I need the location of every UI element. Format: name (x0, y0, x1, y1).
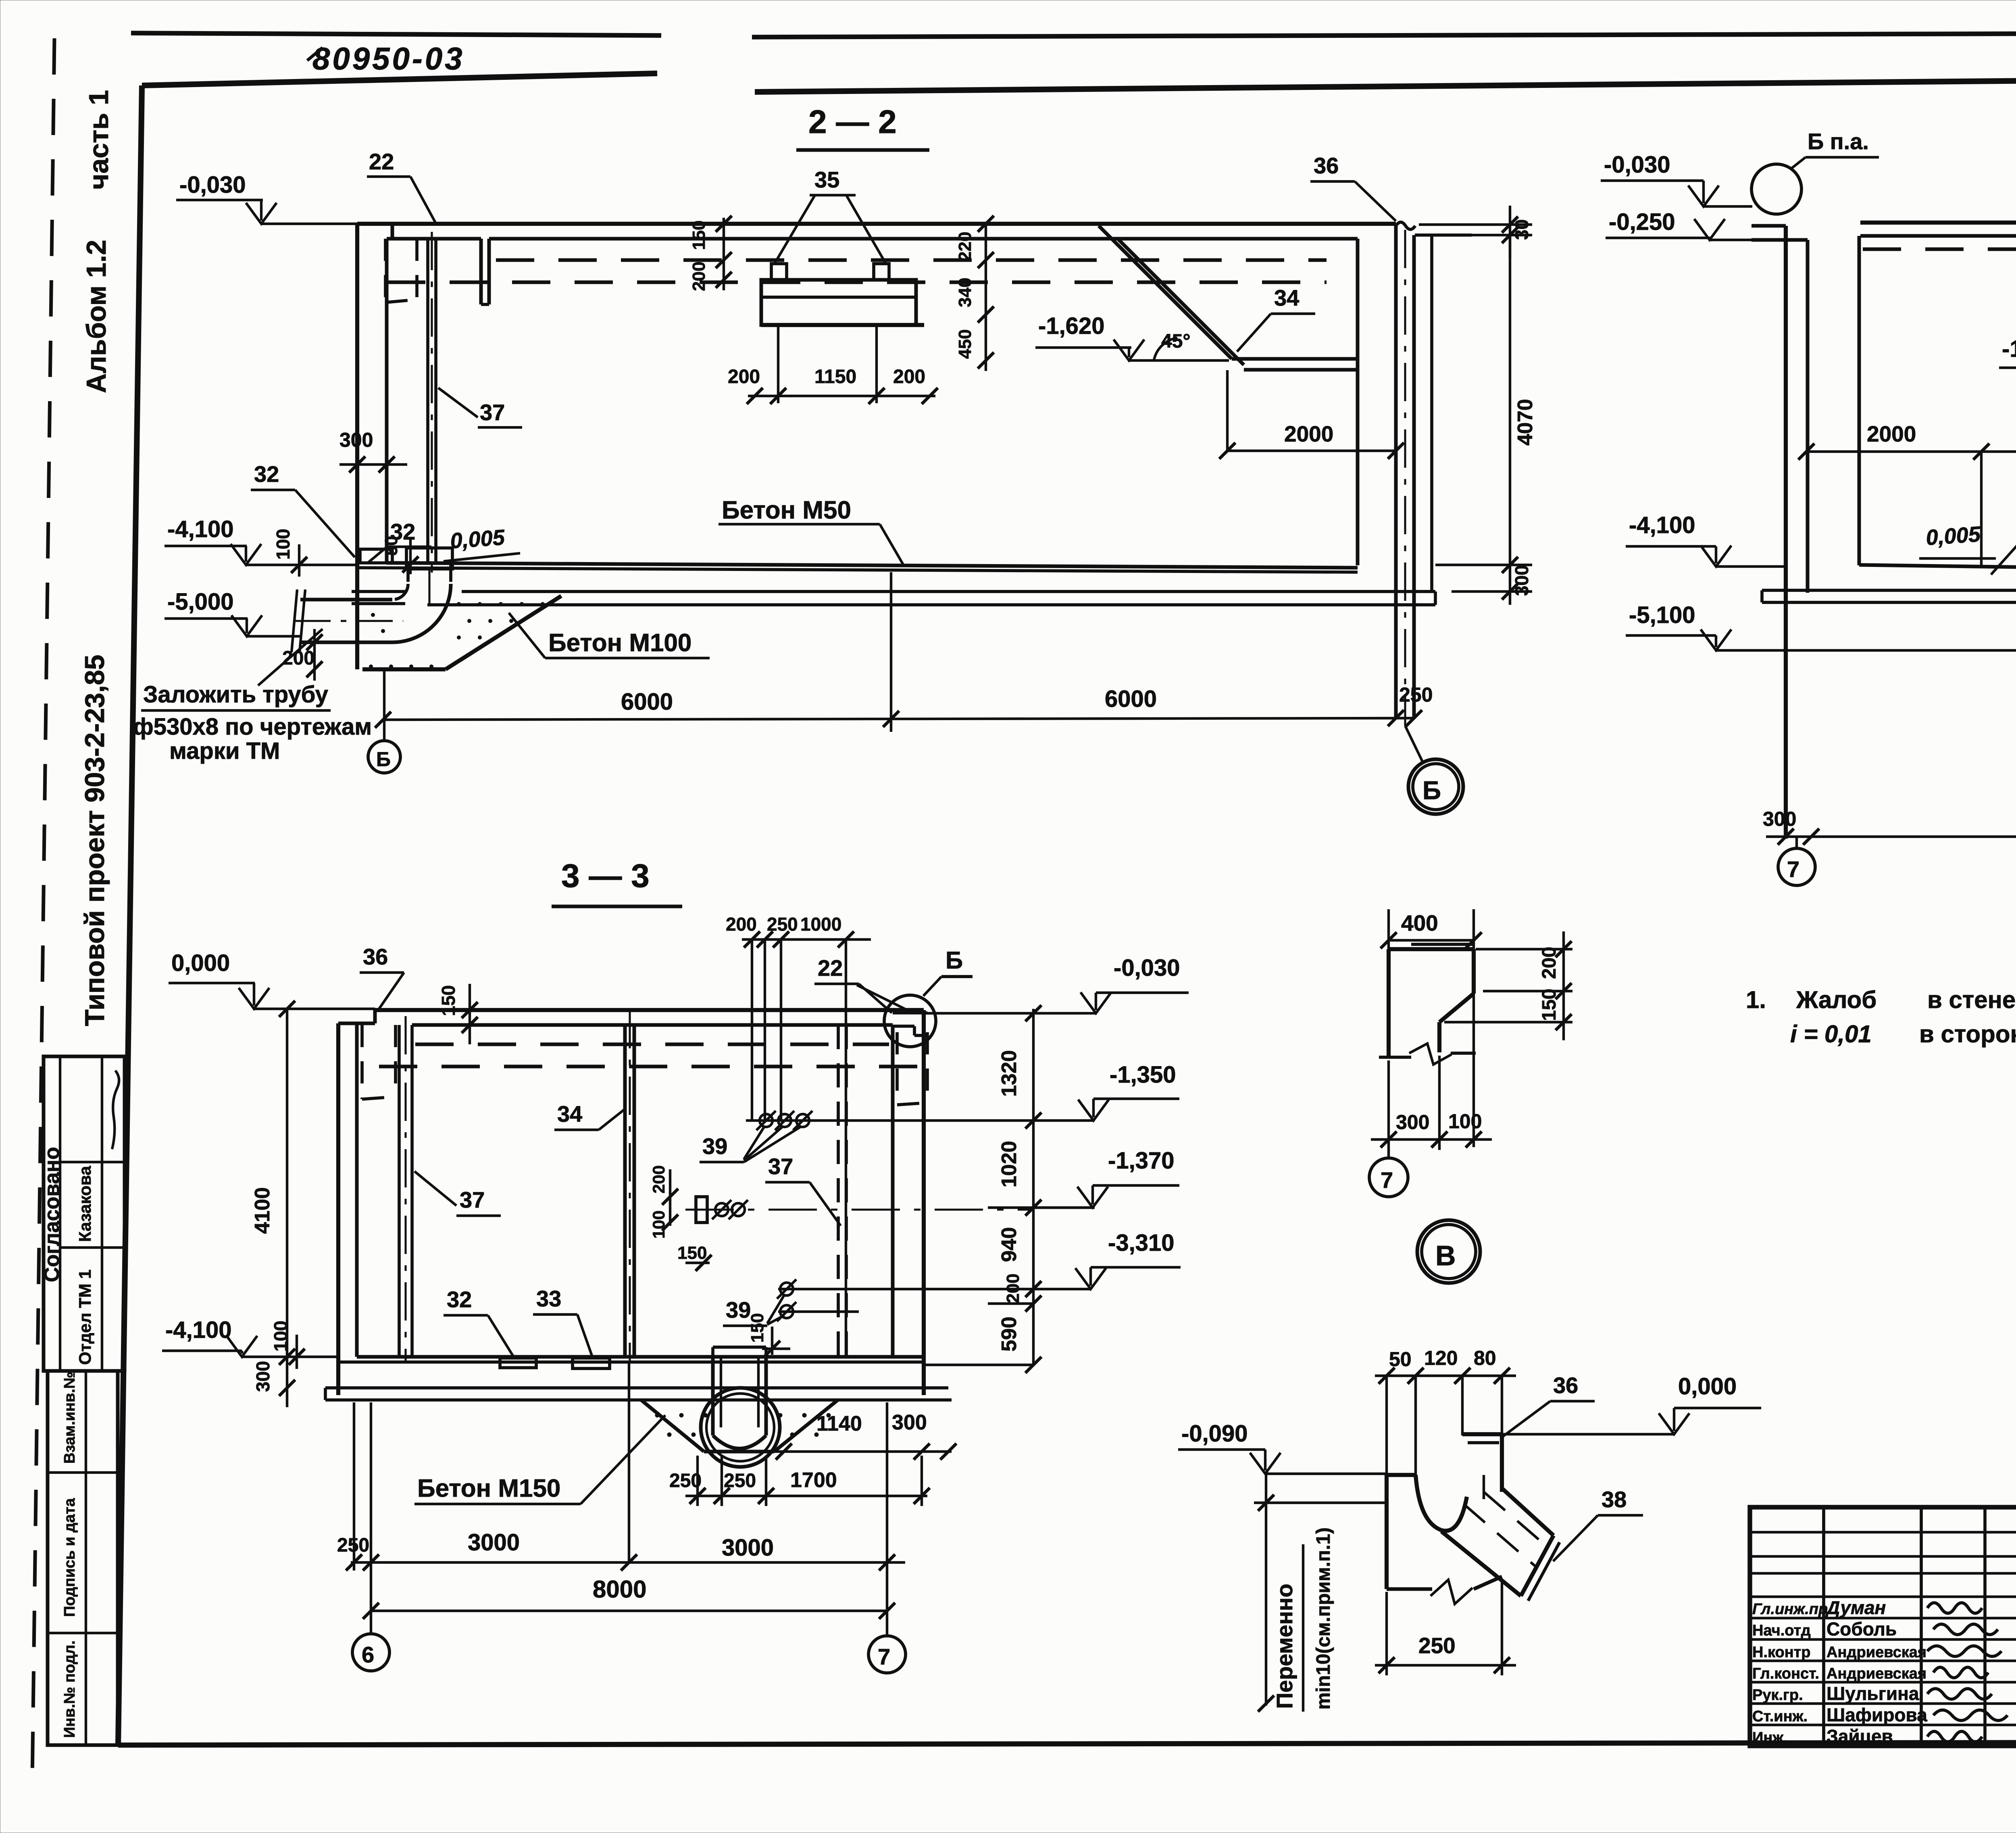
2-2 axis extension to circle right (1405, 726, 1423, 763)
svg-text:37: 37 (460, 1187, 485, 1212)
svg-text:Отдел ТМ 1: Отдел ТМ 1 (75, 1269, 94, 1365)
svg-text:min10(см.прим.п.1): min10(см.прим.п.1) (1313, 1527, 1334, 1710)
svg-text:36: 36 (1553, 1373, 1578, 1398)
2-2 floor slab top line (387, 563, 1358, 568)
svg-text:4070: 4070 (1514, 399, 1537, 446)
svg-text:Бетон М100: Бетон М100 (548, 629, 691, 657)
3-3 anchor row 1 line (746, 1119, 1033, 1122)
3-3 anchor row 2 lines (778, 1288, 1033, 1290)
3-3 right wall outer face (922, 1010, 926, 1395)
svg-text:150: 150 (748, 1313, 767, 1343)
2-2 block left dim chain (723, 218, 725, 290)
left outer dashed border line (32, 38, 54, 1780)
svg-text:80950-03: 80950-03 (312, 41, 465, 76)
2-2 baffle horizontal line2 (1244, 368, 1358, 372)
svg-text:Согласовано: Согласовано (40, 1147, 64, 1282)
approval stamp divider vertical 1 (59, 1056, 61, 1371)
4-4 left wall inner face (1806, 240, 1810, 593)
svg-text:6000: 6000 (621, 689, 673, 715)
svg-text:150: 150 (689, 221, 709, 250)
2-2 base slab band (462, 590, 1397, 593)
svg-text:200: 200 (1003, 1274, 1023, 1303)
2-2 bottom dim line (383, 718, 1414, 720)
3-3 middle wall 34 lines (623, 1025, 627, 1357)
svg-text:150: 150 (438, 985, 459, 1016)
lower stamp divider vertical (85, 1371, 87, 1745)
svg-text:В: В (1435, 1240, 1456, 1271)
nodeB dim 50 120 80 (1375, 1375, 1516, 1377)
3-3 base slab band (338, 1386, 948, 1389)
svg-text:1700: 1700 (790, 1468, 837, 1492)
2-2 bottom dim extension left (383, 671, 385, 741)
svg-text:Бетон М150: Бетон М150 (417, 1475, 560, 1502)
svg-text:-0,250: -0,250 (1609, 209, 1675, 235)
3-3 trench stipple (655, 1413, 659, 1417)
svg-text:Ст.инж.: Ст.инж. (1752, 1708, 1808, 1725)
svg-text:Б: Б (1422, 776, 1441, 805)
svg-text:-4,100: -4,100 (167, 516, 233, 542)
svg-text:940: 940 (998, 1227, 1021, 1262)
svg-text:1140: 1140 (816, 1412, 862, 1435)
nodeB dim extensions (1385, 1376, 1388, 1475)
3-3 dim 3000 3000 (351, 1561, 905, 1564)
svg-text:7: 7 (1381, 1167, 1393, 1193)
3-3 floor line (357, 1355, 924, 1359)
nodeB chute edge upper (1502, 1489, 1554, 1535)
detail7 break symbol (1409, 1044, 1452, 1064)
2-2 embedded pipe vertical dashed (406, 564, 410, 584)
3-3 slab soffit (412, 1023, 893, 1027)
2-2 right formwork outer line (1430, 235, 1433, 592)
2-2 lean concrete block outline (446, 596, 561, 669)
svg-text:0,005: 0,005 (450, 525, 506, 553)
svg-text:50: 50 (1389, 1348, 1412, 1371)
svg-text:Взам.инв.№: Взам.инв.№ (61, 1372, 78, 1464)
4-4 dim 2000 2500 (1806, 450, 2016, 453)
3-3 channel 22 inside circle (893, 1011, 927, 1014)
svg-text:Подпись и дата: Подпись и дата (61, 1498, 78, 1617)
svg-text:6: 6 (362, 1642, 374, 1667)
svg-text:-4,100: -4,100 (165, 1317, 231, 1343)
svg-text:Рук.гр.: Рук.гр. (1752, 1687, 1803, 1704)
svg-text:450: 450 (955, 329, 975, 359)
svg-text:i = 0,01: i = 0,01 (1790, 1021, 1872, 1048)
svg-text:2000: 2000 (1867, 421, 1916, 446)
2-2 right wall top notch (1396, 222, 1415, 229)
2-2 diagonal baffle 34 line1 (1099, 226, 1232, 359)
title block horizontal row line b (1750, 1555, 2016, 1558)
svg-text:Бетон М50: Бетон М50 (722, 496, 851, 524)
2-2 right dim 4070 (1509, 235, 1511, 565)
2-2 diagonal baffle 34 line2 (1118, 239, 1244, 365)
svg-text:36: 36 (363, 944, 388, 969)
svg-text:150: 150 (677, 1243, 707, 1263)
3-3 anchor row 2 (780, 1283, 793, 1296)
inner frame bottom line (118, 1742, 2016, 1745)
2-2 top slab surface line (392, 222, 1396, 226)
svg-text:3000: 3000 (468, 1529, 520, 1556)
approval stamp divider horizontal 1 (60, 1161, 125, 1163)
2-2 embedded pipe centerline (294, 620, 403, 622)
2-2 wall top step (357, 222, 392, 226)
svg-text:-5,000: -5,000 (167, 589, 233, 615)
svg-text:37: 37 (768, 1154, 793, 1179)
2-2 beam block dim line 200 1150 200 (748, 395, 935, 397)
3-3 left wall outer face (336, 1023, 340, 1395)
3-3 anchor mid axis line (685, 1208, 1033, 1210)
svg-text:300: 300 (1396, 1111, 1429, 1133)
4-4 node circle Б p.a. (1752, 164, 1801, 214)
svg-text:Шафирова: Шафирова (1826, 1704, 1927, 1725)
lower stamp outer box (48, 1371, 118, 1745)
svg-text:200: 200 (689, 262, 709, 291)
title block vertical divider col2 (1920, 1507, 1923, 1746)
svg-text:в стене выполнить: в стене выполнить (1927, 986, 2016, 1013)
inner frame top line right segment (755, 77, 2016, 92)
3-3 axis circle 7 (868, 1636, 906, 1673)
3-3 floor plate 2 (573, 1358, 610, 1369)
svg-text:250: 250 (1418, 1633, 1456, 1658)
svg-text:-1,620: -1,620 (1038, 313, 1104, 339)
2-2 right wall inner face (1356, 239, 1360, 565)
2-2 lean concrete stipple (457, 602, 461, 606)
svg-text:1000: 1000 (800, 914, 841, 935)
3-3 anchor mid bolts (715, 1203, 728, 1216)
svg-text:-5,100: -5,100 (1629, 602, 1695, 628)
3-3 top slab surface (375, 1008, 924, 1012)
nodeB chute edge lower (1441, 1531, 1521, 1596)
svg-text:Думан: Думан (1825, 1597, 1886, 1618)
svg-text:Типовой проект 903-2-23,85: Типовой проект 903-2-23,85 (79, 655, 110, 1026)
3-3 floor screed line (338, 1360, 924, 1364)
svg-text:32: 32 (390, 519, 415, 544)
title block vertical divider col1 (1822, 1507, 1825, 1746)
3-3 right formwork dashed (837, 1025, 840, 1357)
svg-text:Нач.отд: Нач.отд (1752, 1622, 1811, 1639)
lower stamp divider horizontal 2 (48, 1632, 118, 1634)
4-4 top slab dashed (1863, 248, 2016, 251)
svg-text:1150: 1150 (814, 366, 856, 387)
3-3 trench right slant (774, 1400, 838, 1452)
3-3 middle wall centerline (629, 1010, 631, 1363)
detail7 axis circle 7 (1369, 1158, 1408, 1197)
2-2 base slab stub left (352, 590, 405, 593)
2-2 baffle horizontal line1 (1232, 357, 1358, 361)
3-3 right chain level lines (924, 1012, 1097, 1014)
detail7 shape outline (1387, 949, 1391, 1057)
nodeB gutter profile (1387, 1473, 1416, 1477)
2-2 beam block 35 nib left (771, 264, 787, 280)
svg-text:Андриевская: Андриевская (1826, 1644, 1926, 1661)
2-2 axis circle Б right (1408, 759, 1463, 814)
svg-text:36: 36 (1314, 153, 1339, 178)
svg-text:Инж.: Инж. (1752, 1729, 1788, 1746)
svg-text:38: 38 (1602, 1487, 1627, 1512)
3-3 left formwork lines (398, 1025, 401, 1357)
nodeB chute dashed lines (1464, 1504, 1537, 1568)
3-3 dim 1140 300 (766, 1450, 952, 1453)
svg-text:200: 200 (1539, 947, 1560, 979)
2-2 right formwork centerline (1404, 230, 1406, 726)
nodeB bottom edges (1387, 1587, 1432, 1591)
3-3 node circle Б (884, 995, 936, 1047)
svg-text:300: 300 (339, 429, 373, 451)
4-4 floor line (1859, 565, 2016, 569)
svg-text:марки ТМ: марки ТМ (169, 738, 280, 764)
svg-text:250: 250 (1399, 683, 1433, 706)
2-2 left wall outer face (355, 224, 359, 669)
detail7 shape top lip (1411, 943, 1474, 946)
3-3 axis circle 6 (352, 1634, 389, 1671)
3-3 trench left slant (641, 1400, 704, 1452)
detail7 dim 400 (1389, 939, 1474, 941)
nodeB break symbol (1431, 1580, 1472, 1604)
svg-text:2 — 2: 2 — 2 (808, 104, 897, 140)
svg-text:-4,100: -4,100 (1629, 512, 1695, 538)
svg-text:0,005: 0,005 (1925, 522, 1982, 550)
svg-text:250: 250 (767, 914, 798, 935)
2-2 beam block dim extensions (777, 325, 779, 403)
inner frame top line left segment (142, 73, 657, 85)
2-2 beam block bottom lip (761, 323, 924, 327)
svg-text:400: 400 (1401, 910, 1438, 935)
2-2 beam block 35 body (761, 280, 916, 325)
svg-text:22: 22 (369, 149, 394, 174)
svg-text:Б: Б (376, 748, 391, 771)
3-3 dim 250 250 1700 (685, 1495, 927, 1497)
svg-text:250: 250 (724, 1470, 756, 1491)
2-2 pipe break symbol (292, 589, 297, 652)
svg-text:-1,350: -1,350 (1110, 1062, 1176, 1088)
4-4 top slab soffit (1860, 234, 2016, 238)
svg-text:Жалоб: Жалоб (1796, 986, 1876, 1013)
svg-text:80: 80 (1474, 1347, 1496, 1369)
svg-text:ф530х8 по чертежам: ф530х8 по чертежам (133, 714, 372, 740)
3-3 right channel dashed (896, 1032, 899, 1105)
svg-text:-1,370: -1,370 (1108, 1148, 1174, 1174)
svg-text:32: 32 (447, 1287, 472, 1312)
svg-text:Б п.а.: Б п.а. (1808, 129, 1869, 154)
2-2 right formwork panel lines (1394, 226, 1398, 719)
2-2 floor corner plate (360, 549, 392, 563)
svg-text:100: 100 (273, 529, 294, 560)
3-3 top dims extension lines (751, 939, 753, 1121)
3-3 right chain line (1032, 1009, 1035, 1365)
title block outer box (1750, 1507, 2016, 1746)
svg-text:-0,090: -0,090 (1181, 1421, 1248, 1447)
detail7 bottom dim 300 100 (1371, 1138, 1492, 1141)
2-2 embedded pipe horizontal lines (300, 598, 392, 602)
2-2 left wall inner face (385, 239, 389, 563)
2-2 bottom dim extension mid (890, 572, 892, 732)
3-3 dim 4100 (286, 1009, 288, 1357)
svg-text:3000: 3000 (722, 1535, 774, 1561)
svg-text:35: 35 (814, 167, 839, 192)
svg-text:7: 7 (1787, 856, 1799, 882)
nodeB dim 250 (1375, 1664, 1516, 1666)
nodeB left face (1385, 1475, 1389, 1589)
lower stamp divider horizontal 1 (48, 1471, 118, 1474)
4-4 bottom dim line (1766, 835, 2016, 838)
svg-text:в сторону поз. 38 .: в сторону поз. 38 . (1919, 1021, 2016, 1048)
3-3 anchor mid plate (696, 1197, 707, 1223)
svg-text:Альбом 1.2: Альбом 1.2 (81, 240, 112, 393)
svg-text:34: 34 (557, 1101, 582, 1127)
svg-text:Заложить трубу: Заложить трубу (143, 681, 328, 708)
2-2 hidden dashed line upper (496, 258, 1327, 262)
svg-text:Казакова: Казакова (75, 1166, 94, 1242)
svg-text:1020: 1020 (998, 1141, 1021, 1187)
2-2 slab soffit line (489, 237, 1358, 241)
svg-text:120: 120 (1424, 1347, 1458, 1369)
svg-text:33: 33 (536, 1286, 561, 1311)
svg-text:Шульгина: Шульгина (1826, 1683, 1919, 1704)
2-2 formwork foot plate (406, 548, 452, 569)
3-3 anchor row 1 (760, 1114, 773, 1127)
3-3 duct inner walls (720, 1357, 722, 1427)
3-3 pipe circle outer (701, 1388, 780, 1467)
svg-text:30: 30 (1511, 219, 1532, 240)
stamp signature squiggle (112, 1071, 119, 1149)
svg-text:37: 37 (480, 400, 505, 425)
approval stamp outer box (44, 1056, 125, 1371)
svg-text:0,000: 0,000 (1678, 1373, 1737, 1400)
3-3 hidden dashed lower (379, 1065, 923, 1069)
top outer border line left segment (131, 33, 661, 35)
4-4 left wall top lines (1752, 224, 1786, 228)
svg-text:220: 220 (955, 232, 975, 261)
3-3 duct collar (713, 1346, 766, 1349)
svg-text:Н.контр: Н.контр (1752, 1644, 1811, 1661)
4-4 axis circle 7 (1778, 848, 1815, 885)
3-3 left channel dashed (360, 1025, 364, 1099)
2-2 embedded channel 22 dashed outline (384, 239, 387, 302)
2-2 bottom dim ticks (375, 712, 391, 728)
2-2 beam block 35 nib right (874, 264, 889, 280)
svg-text:39: 39 (726, 1297, 751, 1323)
svg-text:-0,030: -0,030 (179, 172, 246, 198)
svg-text:4100: 4100 (251, 1187, 274, 1234)
nodeB chute end cap (1521, 1535, 1554, 1596)
svg-text:-0,030: -0,030 (1114, 955, 1180, 981)
svg-text:200: 200 (893, 366, 925, 387)
svg-text:300: 300 (892, 1411, 927, 1434)
svg-text:300: 300 (252, 1361, 273, 1392)
2-2 formwork panel 37 centerline (431, 232, 433, 573)
3-3 right wall inner face (891, 1025, 895, 1357)
svg-text:590: 590 (998, 1316, 1021, 1352)
2-2 right dim 300 (1502, 583, 1518, 600)
svg-text:-3,310: -3,310 (1108, 1230, 1174, 1256)
4-4 left wall outer face (1784, 226, 1788, 839)
svg-text:-0,030: -0,030 (1604, 152, 1670, 178)
title block horizontal row line a (1750, 1531, 2016, 1533)
svg-text:Б: Б (946, 947, 963, 974)
svg-text:2000: 2000 (1284, 421, 1333, 446)
4-4 base band left (1776, 589, 2016, 592)
3-3 duct outer walls (711, 1357, 715, 1435)
title block horizontal staff row lines (1750, 1572, 2016, 1575)
svg-text:340: 340 (955, 278, 975, 307)
2-2 slab edge rib lines (479, 239, 483, 304)
svg-text:Соболь: Соболь (1826, 1618, 1897, 1639)
4-4 top slab surface (1860, 221, 2016, 225)
approval stamp divider horizontal 2 (60, 1246, 125, 1249)
top outer border line right segment (752, 32, 2016, 37)
nodeB variable dim line (1265, 1474, 1267, 1706)
2-2 top right dim 30 (1419, 223, 1532, 226)
svg-text:22: 22 (818, 955, 843, 981)
svg-text:7: 7 (878, 1644, 890, 1669)
2-2 embedded pipe outer arc (392, 584, 451, 642)
nodeB right face (1500, 1434, 1504, 1492)
3-3 left formwork centerline (404, 1016, 406, 1363)
svg-text:8000: 8000 (593, 1576, 646, 1603)
svg-text:100: 100 (1448, 1110, 1482, 1133)
svg-text:1.: 1. (1746, 986, 1766, 1013)
svg-text:Инв.№ подл.: Инв.№ подл. (61, 1640, 78, 1738)
2-2 block right dim chain (985, 224, 987, 371)
2-2 dim 2000 (1227, 450, 1396, 452)
svg-text:200: 200 (649, 1165, 668, 1194)
3-3 left wall top step (338, 1022, 375, 1025)
3-3 dim 8000 (371, 1610, 887, 1612)
approval stamp divider vertical 2 (101, 1056, 103, 1371)
svg-text:34: 34 (1274, 285, 1299, 310)
inner frame left vertical line (118, 85, 142, 1745)
3-3 trench bottom (704, 1450, 774, 1454)
3-3 left wall inner face (355, 1025, 359, 1357)
3-3 pipe circle inner (706, 1393, 774, 1461)
svg-text:-1,900: -1,900 (2002, 336, 2016, 362)
title block staff signatures (1927, 1603, 1982, 1613)
3-3 hidden dashed upper (415, 1043, 889, 1046)
svg-text:3 — 3: 3 — 3 (561, 858, 650, 894)
nodeB top edge (1462, 1432, 1502, 1436)
2-2 hidden dashed line lower (387, 281, 1327, 284)
svg-text:39: 39 (702, 1133, 727, 1159)
svg-text:Гл.инж.пр: Гл.инж.пр (1752, 1601, 1828, 1618)
svg-text:6000: 6000 (1105, 686, 1157, 712)
svg-text:300: 300 (1763, 808, 1796, 830)
svg-text:32: 32 (254, 461, 279, 487)
svg-text:200: 200 (728, 366, 760, 387)
3-3 floor plate 1 (500, 1358, 536, 1368)
svg-text:Переменно: Переменно (1272, 1584, 1297, 1709)
2-2 floor screed line 32 (357, 568, 1358, 572)
svg-text:1320: 1320 (998, 1050, 1021, 1097)
title block vertical divider col3 (1983, 1507, 1987, 1746)
svg-text:Андриевская: Андриевская (1826, 1665, 1926, 1682)
3-3 dim extensions (370, 1402, 372, 1634)
svg-text:150: 150 (1539, 989, 1560, 1021)
svg-text:Гл.конст.: Гл.конст. (1752, 1665, 1819, 1682)
2-2 beam block flange line (761, 296, 916, 299)
svg-text:0,000: 0,000 (171, 950, 230, 976)
detail B view circle (1417, 1220, 1480, 1283)
2-2 embedded pipe inner arc (392, 584, 408, 600)
detail7 right dims 200 150 (1476, 948, 1572, 950)
svg-text:200: 200 (726, 914, 757, 935)
3-3 right chain ticks (1025, 1005, 1041, 1021)
svg-text:часть 1: часть 1 (83, 90, 114, 190)
svg-text:100: 100 (649, 1210, 668, 1239)
2-2 axis circle Б left (368, 741, 400, 773)
2-2 formwork panel 37 lines (426, 239, 429, 563)
4-4 inner wall line below slab (1858, 236, 1861, 565)
svg-text:Зайцев: Зайцев (1826, 1726, 1893, 1747)
3-3 top dims 200 250 1000 (742, 938, 871, 941)
